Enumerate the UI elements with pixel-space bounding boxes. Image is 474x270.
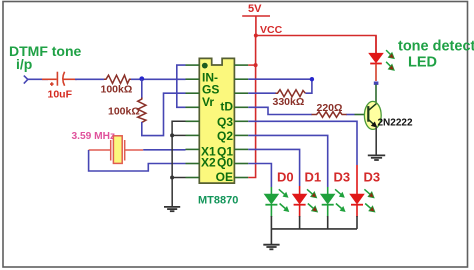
ground bus line left of chip <box>172 121 185 206</box>
svg-text:Q2: Q2 <box>217 129 233 143</box>
wire Q3 to D3 led4 <box>248 121 357 165</box>
LED D3 (red, rightmost) <box>350 189 375 217</box>
chip pin stubs left <box>186 65 200 177</box>
wire input to capacitor <box>28 78 48 80</box>
wire R1 to IN- pin <box>131 78 186 80</box>
wire IN+ to Vr loop <box>177 65 186 107</box>
svg-text:10uF: 10uF <box>48 89 73 101</box>
crystal 3.59 MHz <box>89 136 144 164</box>
junction dot PD <box>170 133 174 137</box>
wire 220 to base <box>347 114 355 116</box>
svg-text:tone detect: tone detect <box>398 39 474 55</box>
wire Q2 to D3 led3 <box>248 135 327 187</box>
svg-text:3.59 MHz: 3.59 MHz <box>72 131 116 142</box>
wire tD to 220 resistor <box>248 107 312 114</box>
svg-text:VCC: VCC <box>260 24 283 36</box>
LED D1 (red) <box>293 189 318 217</box>
wire crystal right to X1 pin <box>143 149 185 151</box>
node (LED-collector) <box>374 82 379 85</box>
wire Q0 to D0 led1 <box>248 164 271 188</box>
wire VDD pin to rail <box>248 64 255 66</box>
wire St/GT to 330k <box>248 79 312 93</box>
svg-text:Q3: Q3 <box>217 115 233 129</box>
VCC rail wires <box>248 36 376 178</box>
svg-text:OE: OE <box>216 170 233 184</box>
svg-text:i/p: i/p <box>16 56 32 72</box>
ground symbol (LED bus) <box>263 245 279 250</box>
svg-text:D1: D1 <box>305 170 322 185</box>
label tone detect LED <box>398 39 474 71</box>
svg-text:MT8870: MT8870 <box>198 195 238 207</box>
resistor R4 220 <box>312 112 348 118</box>
chip U1 MT8870 body <box>199 58 234 183</box>
wire crystal left to X2 pin <box>89 150 186 171</box>
wire junction down to R2 <box>141 79 143 98</box>
svg-text:2N2222: 2N2222 <box>378 118 413 129</box>
svg-text:Q0: Q0 <box>217 156 233 170</box>
resistor R3 330k <box>276 90 306 97</box>
svg-text:LED: LED <box>408 55 437 71</box>
resistor R2 100k vertical <box>138 98 146 124</box>
chip pin labels <box>201 70 233 184</box>
transistor Q1 2N2222 <box>364 101 381 155</box>
svg-text:D0: D0 <box>277 170 294 185</box>
LED tone detect (red) <box>369 36 394 82</box>
wire to collector <box>375 85 377 105</box>
svg-text:X2: X2 <box>201 156 216 170</box>
input port <box>24 76 28 84</box>
wire capacitor to R1 <box>75 78 104 80</box>
5V supply symbol <box>242 16 270 36</box>
node VCC <box>254 34 258 38</box>
svg-text:D3: D3 <box>364 170 381 185</box>
node VDD <box>254 63 258 67</box>
wire ESt to 330k <box>248 92 276 94</box>
pin 1 dot <box>202 63 208 69</box>
capacitor C1 <box>42 72 77 86</box>
svg-text:Vr: Vr <box>202 95 214 109</box>
node junction <box>139 76 144 81</box>
node St/GT corner <box>310 77 314 81</box>
wire Q1 to D1 led2 <box>248 149 299 186</box>
LED cathode bus <box>271 216 357 244</box>
svg-text:100kΩ: 100kΩ <box>108 106 140 118</box>
label DTMF tone <box>9 43 82 72</box>
chip pin stubs right <box>234 65 248 177</box>
svg-text:D3: D3 <box>334 170 351 185</box>
ground symbol (chip) <box>164 207 180 211</box>
svg-text:tD: tD <box>220 100 233 114</box>
svg-text:220Ω: 220Ω <box>317 102 343 114</box>
svg-text:330kΩ: 330kΩ <box>273 96 305 108</box>
junction dot VSS <box>170 176 174 180</box>
resistor R1 100k horizontal <box>104 75 131 83</box>
LED D0 (green) <box>265 189 290 217</box>
LED D3 (green) <box>321 189 346 217</box>
svg-text:100kΩ: 100kΩ <box>101 84 133 96</box>
ground symbol (transistor) <box>368 155 385 160</box>
svg-text:5V: 5V <box>248 3 262 15</box>
wire R2 bottom to GS loop <box>142 93 186 135</box>
